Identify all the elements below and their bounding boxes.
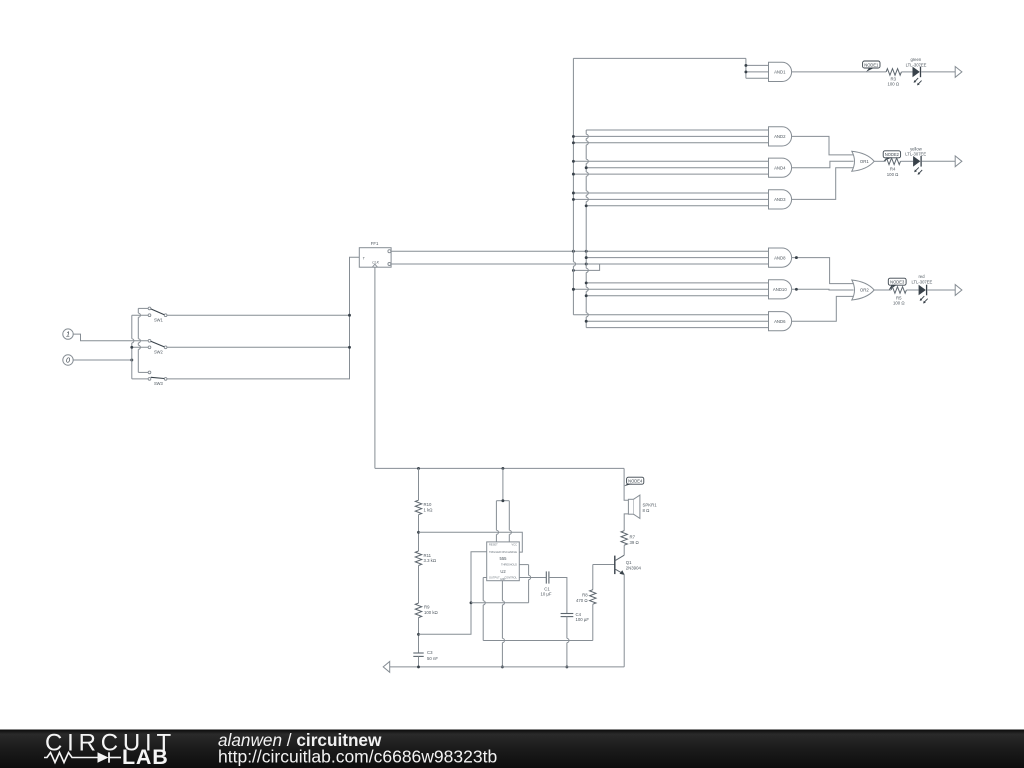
wire LED red to output arrow	[927, 289, 955, 291]
wire AND10 to OR2	[792, 288, 854, 291]
node flag NODE1	[863, 61, 880, 72]
node flag NODE2	[883, 151, 900, 162]
svg-text:1: 1	[66, 330, 70, 339]
wire AND1 in2	[746, 71, 769, 73]
wire bus2 tap y167.7	[586, 167, 768, 169]
terminal arrow yellow out	[955, 156, 962, 167]
ground terminal arrow	[383, 662, 390, 673]
wire SW1 common	[167, 314, 350, 316]
junction bus1 y193	[572, 192, 575, 195]
wire SW2 common	[167, 346, 350, 348]
resistor R9	[415, 603, 421, 617]
wire bus1 tap y199.4	[573, 198, 768, 200]
terminal arrow red out	[955, 285, 962, 296]
junction AND10 out	[795, 288, 798, 291]
wire busA to SW2 bottom throw	[132, 346, 148, 348]
svg-text:GND: GND	[500, 578, 506, 581]
node flag NODE3	[888, 278, 906, 290]
wire TRIGGER to R9 bottom	[419, 552, 487, 635]
junction bus2 y205.8	[585, 204, 588, 207]
junction C3/rail	[417, 665, 420, 668]
wire bus1 top to AND1 column	[573, 57, 746, 59]
wire bus1 tap y142.8	[573, 142, 768, 144]
wire bus2 tap y321.2	[586, 320, 768, 322]
svg-text:LTL-307EE: LTL-307EE	[911, 279, 932, 284]
junction bus1 y199.4	[572, 198, 575, 201]
wire bus2 top to AND2 in1	[586, 129, 768, 131]
svg-text:CLK: CLK	[372, 260, 379, 264]
or-gate OR2	[852, 280, 874, 300]
CircuitLab logo	[44, 730, 176, 768]
svg-text:AND4: AND4	[774, 165, 786, 170]
wire LED yellow to output arrow	[922, 160, 955, 162]
wire R10/R11 to DISCHARGE	[419, 532, 523, 552]
svg-text:NODE4: NODE4	[628, 479, 643, 484]
junction 0/busA	[130, 359, 133, 362]
wire threshold tie	[471, 602, 529, 604]
wire ground rail	[390, 666, 625, 668]
wire busA to SW3 bottom throw	[132, 378, 148, 380]
junction bus1 y174.1	[572, 173, 575, 176]
resistor R5	[891, 287, 906, 294]
svg-text:3.3 kΩ: 3.3 kΩ	[424, 558, 437, 563]
transistor Q1 2N3904	[615, 555, 642, 575]
wire bus2 tap y257.6	[586, 257, 768, 259]
svg-text:0: 0	[66, 356, 70, 365]
wire bus 2 vertical	[586, 130, 588, 328]
junction bus2 y295.7	[585, 294, 588, 297]
wire C3 to ground rail	[418, 656, 420, 667]
wire bus B vertical	[138, 308, 140, 372]
junction gnd/rail	[501, 665, 504, 668]
wire node-1 to SW2 top throw	[73, 334, 148, 341]
svg-text:LTL-307EE: LTL-307EE	[906, 62, 927, 67]
junction bus1 branch	[572, 269, 575, 272]
and-gate AND2	[769, 127, 792, 146]
wire switch bus to FF1 input	[167, 257, 359, 379]
junction trigger/threshold	[470, 601, 473, 604]
junction SW1/FFin	[348, 314, 351, 317]
resistor R11	[415, 551, 421, 565]
LED red LTL-307EE	[919, 285, 928, 304]
wire AND3 to OR1	[792, 168, 854, 200]
svg-text:8 Ω: 8 Ω	[643, 508, 651, 513]
junction bus1 y289	[572, 288, 575, 291]
junction bus1 y289.3	[572, 288, 575, 291]
wire R5 to LED red	[906, 289, 918, 291]
wire Qbar to AND8 in3	[391, 263, 768, 265]
wire AND2 to OR1	[792, 136, 854, 155]
svg-text:100 Ω: 100 Ω	[888, 82, 900, 87]
wire AND6 to OR2	[792, 296, 854, 321]
junction bus1 y142.8	[572, 141, 575, 144]
resistor R7	[621, 531, 627, 545]
wire Q to AND8 in1	[391, 250, 768, 252]
wire busA to SW1 bottom throw	[132, 314, 148, 316]
junction Q/bus2	[585, 250, 588, 253]
svg-text:AND6: AND6	[774, 319, 786, 324]
wire bus 1 vertical	[573, 58, 575, 314]
svg-text:OUTPUT: OUTPUT	[489, 576, 500, 580]
junction bus1 y136.4	[572, 135, 575, 138]
junction bus2 y167.7	[585, 166, 588, 169]
svg-text:555: 555	[500, 556, 508, 561]
junction bus2 y257.6	[585, 256, 588, 259]
wire base tap to R8	[592, 565, 594, 590]
resistor R8	[590, 590, 596, 604]
svg-text:39 Ω: 39 Ω	[630, 540, 640, 545]
junction rail/R10	[417, 467, 420, 470]
LED green LTL-307EE	[913, 67, 922, 86]
svg-text:RESET: RESET	[489, 542, 498, 546]
wire bus1 tap y174.1	[573, 173, 768, 175]
wire busB to SW1 top throw	[138, 307, 148, 309]
wire OUTPUT left	[483, 577, 487, 579]
flip-flop FF1	[359, 241, 391, 267]
wire CONTROL to C1	[519, 577, 546, 579]
svg-text:http://circuitlab.com/c6686w98: http://circuitlab.com/c6686w98323tb	[218, 747, 497, 767]
node flag 1	[63, 329, 73, 339]
svg-text:NODE2: NODE2	[885, 152, 900, 157]
wire C4 to ground rail	[567, 617, 569, 667]
svg-text:CONTROL: CONTROL	[504, 576, 517, 580]
junction bus2 y282.9	[585, 281, 588, 284]
and-gate AND4	[769, 158, 792, 177]
svg-text:FF1: FF1	[371, 241, 379, 246]
terminal arrow green out	[955, 67, 962, 78]
wire AND8 to OR2	[792, 258, 854, 284]
wire speaker to R7	[624, 514, 628, 531]
svg-text:NODE3: NODE3	[890, 280, 905, 285]
speaker SPKR1	[628, 495, 657, 518]
switch SW1	[148, 307, 167, 322]
wire R9 to C3	[418, 618, 420, 653]
wire bus2 bottom to AND6 in3	[586, 327, 768, 329]
junction AND8 out	[795, 256, 798, 259]
svg-text:C3: C3	[427, 650, 433, 655]
wire top rail	[375, 467, 624, 469]
wire threshold vertical	[529, 565, 531, 603]
wire output vertical	[483, 578, 485, 641]
wire rail to R10	[418, 468, 420, 500]
wire base	[593, 564, 615, 566]
wire AND1 out to R3	[792, 71, 887, 73]
wire bus1 tap y289.3	[573, 288, 768, 290]
wire OR2 out to R5	[874, 289, 891, 291]
svg-text:SW3: SW3	[154, 381, 164, 386]
junction bus1 y161.3	[572, 160, 575, 163]
svg-text:U2: U2	[500, 569, 506, 574]
or-gate OR1	[852, 151, 874, 171]
wire bus A vertical	[132, 315, 134, 379]
wire vcc fork bar	[496, 500, 509, 502]
junction AND1 in1	[744, 64, 747, 67]
junction trigger tap	[417, 633, 420, 636]
wire bus2 tap y282.9	[586, 282, 768, 284]
wire bus1 tap y193	[573, 192, 768, 194]
wire bus1 tap y161.3	[573, 160, 768, 162]
junction discharge tap	[417, 531, 420, 534]
IC U2 555 timer	[487, 542, 520, 581]
svg-text:SW2: SW2	[154, 349, 164, 354]
wire AND4 to OR1	[792, 161, 854, 167]
svg-text:AND8: AND8	[774, 255, 786, 260]
wire AND1 input column	[745, 58, 747, 78]
switch SW3	[148, 371, 167, 386]
wire emitter to rail	[623, 574, 625, 667]
wire R8 to output wire	[592, 604, 594, 640]
wire bus1 tap y136.4	[573, 135, 768, 137]
wire fork to RESET pin	[496, 501, 498, 542]
wire output to R8	[483, 640, 593, 642]
junction SW2/FFin	[348, 346, 351, 349]
svg-text:2N3904: 2N3904	[626, 565, 642, 570]
wire C1 to C4	[549, 578, 567, 614]
wire bus2 tap y205.8	[586, 205, 768, 207]
wire fork to VCC pin	[509, 501, 511, 542]
svg-text:AND3: AND3	[774, 197, 786, 202]
wire busB to SW3 top throw	[138, 371, 148, 373]
LED yellow LTL-307EE	[913, 156, 922, 175]
svg-text:470 Ω: 470 Ω	[576, 598, 588, 603]
wire FF1 CLK down	[374, 267, 376, 468]
and-gate AND10	[769, 280, 792, 299]
switch SW2	[148, 339, 167, 354]
and-gate AND1	[769, 62, 792, 81]
and-gate AND6	[769, 312, 792, 331]
svg-text:NODE1: NODE1	[864, 62, 879, 67]
svg-text:LAB: LAB	[122, 745, 169, 768]
node flag NODE4	[624, 477, 644, 486]
svg-text:OR2: OR2	[860, 288, 869, 293]
svg-text:DISCHARGE: DISCHARGE	[502, 550, 518, 554]
svg-text:TRIGGER: TRIGGER	[489, 550, 501, 554]
junction Q/bus1	[572, 250, 575, 253]
wire R11 to R9	[418, 566, 420, 604]
and-gate AND3	[769, 190, 792, 209]
svg-text:50 nF: 50 nF	[427, 656, 438, 661]
wire R10 to R11	[418, 515, 420, 551]
svg-text:100 Ω: 100 Ω	[893, 301, 905, 306]
capacitor C1	[540, 571, 551, 596]
svg-text:OR1: OR1	[860, 159, 869, 164]
junction busA/SW2	[130, 346, 133, 349]
wire bus2 tap y295.7	[586, 295, 768, 297]
wire AND1 in1	[746, 64, 769, 66]
junction bus2 y321.2	[585, 320, 588, 323]
wire bus1 bottom to AND6 in1	[573, 314, 768, 316]
junction rail/VCC	[501, 467, 504, 470]
svg-text:AND10: AND10	[773, 287, 787, 292]
resistor R10	[415, 500, 421, 515]
capacitor C3	[413, 650, 438, 661]
svg-text:LTL-307EE: LTL-307EE	[905, 152, 926, 157]
svg-text:10 µF: 10 µF	[540, 592, 551, 597]
wire rail to vcc fork	[502, 468, 504, 500]
resistor R3	[886, 69, 901, 76]
footer bar	[0, 730, 1024, 768]
wire rail down to speaker	[624, 468, 628, 500]
wire bus1 branch to Qbar	[573, 264, 599, 270]
svg-text:1 kΩ: 1 kΩ	[424, 507, 434, 512]
junction Qbar/bus2	[585, 263, 588, 266]
wire THRESHOLD right	[519, 564, 528, 566]
wire GND pin to rail	[502, 581, 504, 667]
wire node-0 to bus A	[73, 359, 132, 361]
junction AND1 in2	[744, 70, 747, 73]
svg-text:AND1: AND1	[774, 70, 786, 75]
svg-text:AND2: AND2	[774, 134, 786, 139]
svg-text:VCC: VCC	[512, 542, 518, 546]
junction C4/rail	[565, 665, 568, 668]
svg-text:SW1: SW1	[154, 317, 164, 322]
resistor R4	[885, 158, 900, 165]
junction vcc fork	[501, 499, 504, 502]
svg-text:100 kΩ: 100 kΩ	[424, 610, 439, 615]
capacitor C4	[561, 612, 590, 622]
wire LED green to output arrow	[921, 71, 955, 73]
svg-text:100 Ω: 100 Ω	[887, 172, 899, 177]
wire R4 to LED yellow	[901, 160, 914, 162]
svg-text:THRESHOLD: THRESHOLD	[501, 563, 517, 567]
svg-text:100 µF: 100 µF	[576, 617, 590, 622]
wire R7 to collector	[623, 545, 625, 555]
wire AND1 in3	[746, 77, 769, 79]
wire OR1 out to R4	[874, 160, 885, 162]
node flag 0	[63, 355, 73, 365]
wire R3 to LED green	[901, 71, 912, 73]
and-gate AND8	[769, 248, 792, 267]
